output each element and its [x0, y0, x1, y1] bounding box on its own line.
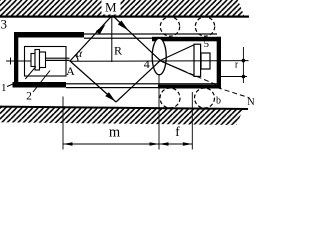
optical axis [70, 60, 249, 63]
carriage frame bottom edge thick [13, 82, 67, 88]
carriage frame left edge [14, 32, 18, 88]
beam lower line [46, 59, 70, 61]
arrowhead on ray M to lens [118, 21, 129, 31]
svg-text:M: M [105, 0, 117, 14]
ray M to lens [112, 15, 160, 60]
bottom roller left [160, 88, 180, 108]
r dimension upper dot [242, 59, 246, 63]
carriage frame right edge [217, 37, 221, 89]
left axis tick [10, 58, 12, 65]
angle alpha arc [75, 55, 78, 61]
carriage frame top slot lower line [84, 38, 152, 39]
housing diagonal line [25, 66, 36, 79]
svg-text:m: m [109, 124, 121, 140]
arrowhead on ray A to M [96, 24, 106, 34]
cone lower line lens to detector [160, 61, 194, 76]
top rail bottom edge line [0, 16, 249, 18]
top roller right [195, 17, 214, 36]
detector front plate [194, 44, 201, 76]
lens 4 [152, 38, 166, 74]
ray B to lens [116, 61, 160, 102]
carriage frame bottom slot upper line [66, 83, 217, 84]
detector back box [201, 53, 210, 69]
carriage frame bottom slot lower line [66, 87, 158, 88]
extension line left of m [62, 97, 64, 150]
bottom surface hatching [0, 107, 243, 125]
r dimension vertical line [242, 47, 244, 83]
leader line for 2 [33, 71, 50, 93]
top guide rail 3 hatching [0, 0, 244, 16]
carriage frame top roller bar [152, 37, 221, 42]
dimension line m f [63, 143, 192, 145]
arrowhead on ray A to B [105, 92, 115, 101]
dimension arrow right end f [183, 142, 193, 146]
r dimension lower line [221, 76, 248, 78]
svg-text:3: 3 [1, 17, 8, 32]
bottom roller right [195, 88, 215, 108]
cone upper line lens to detector [160, 45, 194, 61]
vertical line below M [111, 16, 113, 63]
svg-text:5: 5 [204, 38, 210, 50]
svg-text:R: R [114, 44, 122, 58]
ray A to M [70, 15, 112, 61]
dimension arrow right end m [150, 142, 160, 146]
bottom surface edge line [0, 106, 248, 110]
leader line for 1 [7, 84, 14, 87]
svg-text:A: A [66, 64, 75, 78]
beam upper line [46, 57, 70, 59]
carriage frame top edge thick [14, 32, 84, 38]
carriage frame top slot upper line [84, 33, 217, 34]
left axis stub [6, 60, 31, 62]
carriage frame bottom roller bar [158, 85, 221, 89]
ray to N solid part [160, 61, 182, 71]
light source housing box [25, 47, 67, 77]
dimension arrow left end f [159, 142, 169, 146]
ray to N dashed inner part [182, 70, 217, 85]
ray to N dashed part [217, 88, 250, 98]
extension line below lens [158, 75, 160, 150]
dimension arrow left end m [63, 142, 73, 146]
svg-text:b: b [216, 96, 221, 107]
light source flange tall [35, 50, 40, 71]
svg-text:1: 1 [1, 82, 7, 94]
top roller left [160, 17, 179, 36]
extension line right of f [191, 92, 193, 150]
light source body [40, 52, 46, 68]
svg-text:N: N [247, 97, 254, 108]
svg-text:2: 2 [26, 91, 32, 103]
ray A to B [70, 61, 116, 102]
svg-text:f: f [175, 124, 180, 139]
light source flange small [31, 54, 35, 67]
svg-text:4: 4 [144, 57, 150, 71]
r dimension lower dot [242, 75, 246, 79]
hatch gap for label M [102, 0, 121, 15]
svg-text:α: α [76, 48, 83, 60]
